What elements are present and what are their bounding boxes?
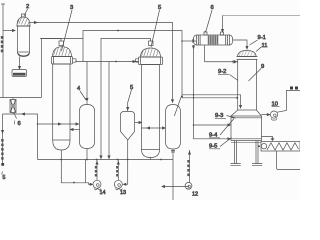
label 16 xyxy=(14,113,21,127)
label 9-2 xyxy=(218,69,238,81)
node feed text xyxy=(1,36,4,52)
label 10 xyxy=(272,102,280,108)
label 4 xyxy=(77,86,86,100)
wire col5 to vessel7 xyxy=(141,127,166,129)
wire feed arrow into column 2 xyxy=(3,30,15,32)
wire column9 solids outlet xyxy=(262,137,273,141)
wire left feed riser xyxy=(2,4,4,98)
svg-text:13: 13 xyxy=(120,190,126,196)
wire crown left nozzle xyxy=(136,59,139,62)
wire recycle header upper xyxy=(0,97,42,99)
pump 14 xyxy=(93,160,101,190)
wire left outfall xyxy=(2,114,4,164)
svg-text:5: 5 xyxy=(3,175,6,181)
label 3 xyxy=(62,5,74,51)
wire bottoms collection xyxy=(61,160,91,185)
screw conveyor xyxy=(258,142,300,152)
wire col3-vessel4 connectors xyxy=(61,123,78,125)
label 6 xyxy=(206,5,214,31)
wire column3 recirc return xyxy=(38,123,61,125)
wire branch to vessel4 xyxy=(86,62,88,101)
wire exchanger left inlet xyxy=(182,40,196,42)
wire line C xyxy=(101,39,151,158)
svg-text:14: 14 xyxy=(100,190,106,196)
wire crown nozzle to vapor line xyxy=(73,59,137,63)
cone vessel 5 xyxy=(121,102,142,184)
column 3 xyxy=(52,41,73,160)
wire exchanger bottom condensate xyxy=(193,45,195,95)
label 9-1 xyxy=(250,35,266,45)
wire steam line gray xyxy=(223,15,301,17)
label 9 xyxy=(249,64,265,81)
pump 13 xyxy=(114,160,122,190)
pump 12 xyxy=(185,150,192,189)
wire column2 bottoms to tray xyxy=(19,57,21,69)
label 2 xyxy=(24,4,29,16)
svg-text:9: 9 xyxy=(261,64,264,70)
label 5 top xyxy=(151,5,161,47)
wire line B xyxy=(83,31,182,95)
label 9-3 xyxy=(215,113,236,119)
wire vessel7 bottoms out xyxy=(162,186,189,188)
label 9-4 xyxy=(209,119,234,139)
wire drop to 9-5 xyxy=(194,125,230,139)
vessel 7 xyxy=(160,97,181,201)
wire exchanger bottom to dome xyxy=(205,45,238,62)
heat exchanger 6 xyxy=(192,31,232,45)
wire column2 overhead line xyxy=(30,23,173,101)
label 5 bottom-left xyxy=(1,163,5,181)
svg-text:11: 11 xyxy=(262,43,268,49)
svg-text:9-1: 9-1 xyxy=(258,35,266,41)
wire recycle header lower xyxy=(3,114,38,160)
wire line B left drop xyxy=(40,38,83,40)
svg-text:12: 12 xyxy=(192,192,198,198)
wire conveyor discharge xyxy=(277,151,301,170)
label 11 xyxy=(256,43,268,52)
label 5 cone xyxy=(128,85,133,102)
wire line D xyxy=(108,62,110,158)
vessel 4 xyxy=(80,102,95,160)
valve 16 x-box xyxy=(10,98,16,115)
tray box xyxy=(12,70,27,77)
node outfall text top right xyxy=(290,87,298,90)
wire exchanger right outlet to column9 xyxy=(233,40,247,48)
wire bottom header xyxy=(38,159,174,161)
wire column3 vapor loop xyxy=(42,39,62,98)
pump 10 xyxy=(262,91,301,121)
wire cone outlet into pump13 xyxy=(124,183,128,185)
wire drop to 9-4 xyxy=(194,95,230,125)
label 9-5 xyxy=(209,138,232,150)
column 5 xyxy=(139,41,163,160)
svg-text:9-2: 9-2 xyxy=(218,69,226,75)
wire mid headers xyxy=(182,95,241,107)
column 2 xyxy=(17,14,31,57)
svg-text:6: 6 xyxy=(18,121,21,127)
column 9 xyxy=(231,51,263,166)
